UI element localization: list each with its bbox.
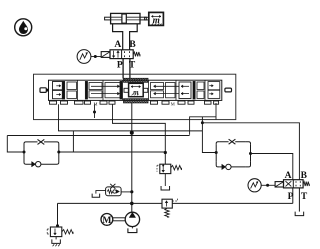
svg-text:m: m bbox=[153, 16, 160, 26]
svg-text:P: P bbox=[117, 61, 123, 71]
svg-text:A: A bbox=[114, 40, 121, 50]
svg-text:M: M bbox=[171, 101, 175, 106]
svg-text:m: m bbox=[133, 89, 139, 97]
svg-text:T: T bbox=[301, 192, 308, 202]
svg-text:B: B bbox=[129, 40, 136, 50]
svg-text:M: M bbox=[102, 215, 111, 226]
